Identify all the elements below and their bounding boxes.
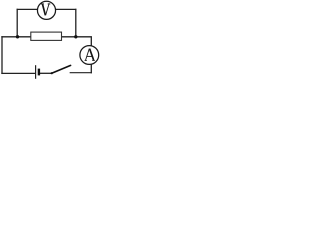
wire: bottom-right horizontal to switch contact	[70, 72, 91, 74]
wire: voltmeter branch left vertical	[16, 9, 18, 36]
wire: battery to switch pivot	[40, 72, 52, 74]
voltmeter V circle	[37, 1, 55, 19]
wire: left vertical (node A branch)	[1, 37, 3, 74]
ammeter A circle	[80, 46, 99, 65]
wire: bottom-left horizontal to battery	[2, 72, 35, 74]
wire: resistor right to ammeter corner	[62, 37, 92, 46]
wire: mid-left horizontal to resistor	[2, 36, 31, 38]
node junction dot left	[16, 35, 19, 38]
resistor R	[31, 32, 62, 40]
switch S1 blade (open)	[52, 65, 71, 73]
wire: ammeter bottom to bottom-right corner	[90, 64, 92, 72]
wire: voltmeter branch right vertical	[75, 9, 77, 36]
wire: top-left horizontal to voltmeter	[17, 8, 37, 10]
voltmeter V label	[41, 4, 50, 15]
node junction dot right	[74, 35, 77, 38]
battery B1 short thick plate	[38, 69, 40, 76]
wire: top-right horizontal from voltmeter	[55, 8, 75, 10]
switch S1 pivot dot	[51, 72, 53, 74]
ammeter A label	[85, 49, 95, 61]
battery B1 long plate	[35, 65, 37, 79]
